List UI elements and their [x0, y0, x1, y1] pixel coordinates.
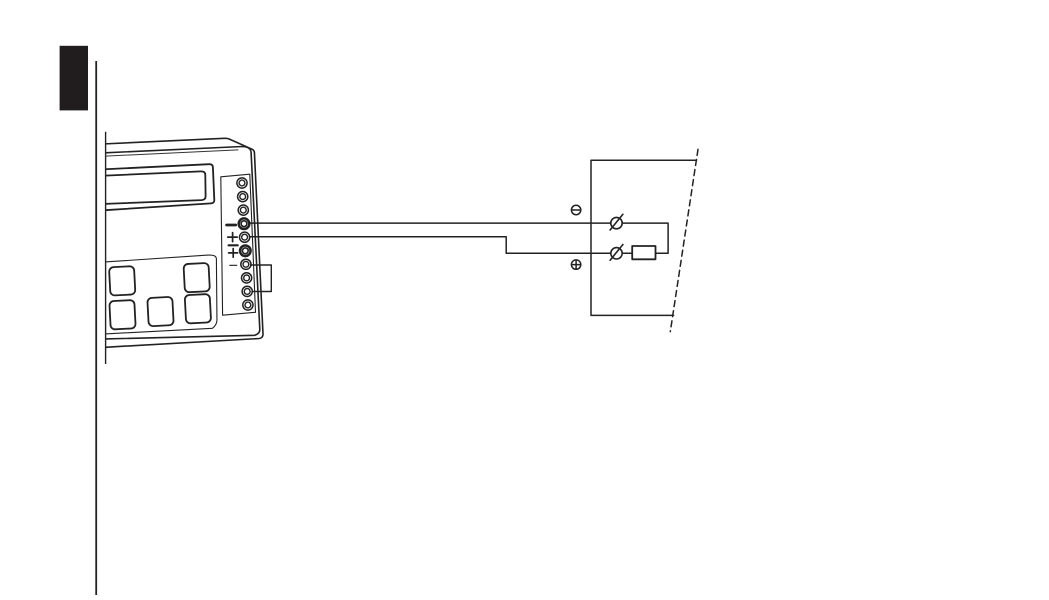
black chapter tab — [60, 46, 88, 111]
terminal 3 — [238, 205, 248, 215]
terminal 5 (mV +) — [240, 232, 250, 242]
shorting link terminals 7-9 — [251, 265, 272, 292]
label minus (terminal 6 upper) — [229, 244, 238, 246]
instrument chassis outline — [94, 138, 263, 348]
screw terminal upper — [610, 214, 623, 230]
panel bevel line — [94, 150, 238, 157]
terminal 6 — [240, 246, 251, 257]
terminal 8 — [242, 273, 252, 283]
page margin line — [95, 61, 97, 595]
terminal 1 — [237, 178, 247, 188]
key bottom-left — [109, 300, 135, 330]
key bottom-middle — [147, 297, 173, 327]
label plus (terminal 5) — [228, 233, 237, 242]
torn-edge dashed line — [670, 149, 698, 331]
resistor — [632, 246, 655, 259]
terminal 9 — [242, 286, 252, 296]
display bezel — [94, 164, 214, 211]
label minus (terminal 4) — [227, 224, 236, 227]
wire W2 lower — [250, 237, 611, 254]
circled minus polarity — [571, 205, 580, 214]
label minus (terminal 7) — [230, 264, 237, 266]
terminal 4 (mV -) — [239, 218, 250, 229]
terminal block outline — [591, 160, 697, 315]
terminal 2 — [238, 192, 248, 202]
screw terminal lower — [610, 245, 623, 261]
label plus (terminal 6) — [229, 249, 238, 258]
wire W1 upper — [249, 223, 668, 253]
key top-right — [183, 263, 209, 293]
circled plus polarity — [571, 260, 580, 269]
terminal 10 — [243, 300, 253, 310]
wire screw2 to resistor — [622, 252, 632, 254]
instrument clipped left edge — [105, 132, 107, 364]
instrument front panel — [94, 147, 260, 340]
display window — [94, 171, 206, 204]
keypad panel — [94, 255, 217, 334]
terminal strip plate — [221, 174, 256, 315]
key bottom-right — [185, 294, 211, 324]
terminal 7 — [241, 259, 251, 269]
key top-left — [109, 266, 135, 296]
